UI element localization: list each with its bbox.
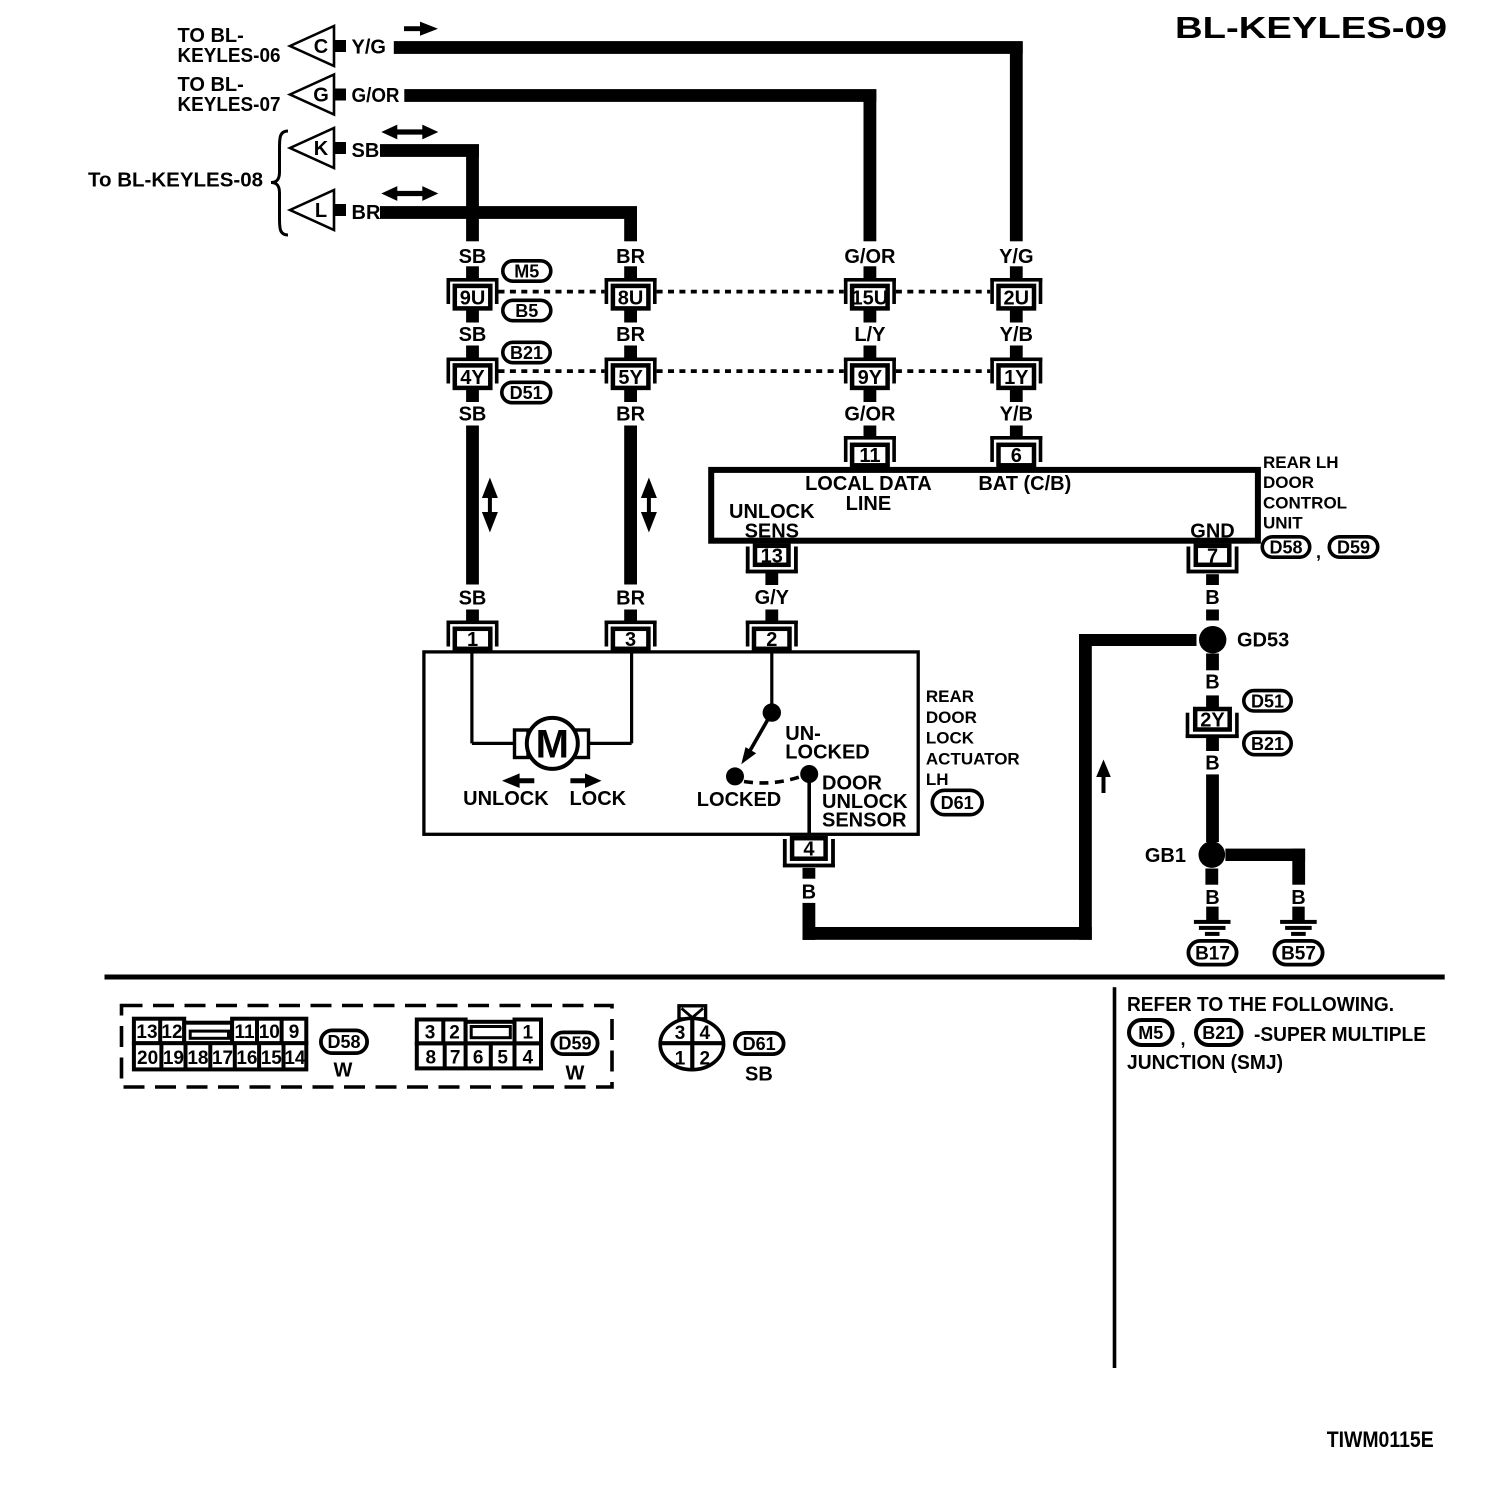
svg-text:6: 6 <box>473 1048 484 1069</box>
svg-text:20: 20 <box>137 1048 158 1069</box>
svg-text:7: 7 <box>1207 546 1218 568</box>
svg-text:12: 12 <box>161 1022 182 1043</box>
svg-text:8U: 8U <box>618 287 644 309</box>
svg-text:5Y: 5Y <box>618 367 643 389</box>
svg-text:TIWM0115E: TIWM0115E <box>1327 1427 1434 1452</box>
svg-text:CONTROL: CONTROL <box>1263 493 1347 512</box>
svg-text:M5: M5 <box>514 262 539 282</box>
svg-text:To BL-KEYLES-08: To BL-KEYLES-08 <box>88 170 263 192</box>
svg-text:D59: D59 <box>1337 538 1370 558</box>
svg-text:3: 3 <box>675 1023 686 1044</box>
svg-text:B: B <box>802 882 816 904</box>
svg-text:LOCAL DATA: LOCAL DATA <box>805 473 932 495</box>
svg-text:G/OR: G/OR <box>844 404 896 426</box>
svg-text:D51: D51 <box>510 383 543 403</box>
svg-text:Y/B: Y/B <box>1000 324 1033 346</box>
svg-text:K: K <box>314 138 329 160</box>
svg-text:D61: D61 <box>743 1034 776 1054</box>
svg-text:18: 18 <box>187 1048 208 1069</box>
svg-text:D51: D51 <box>1251 691 1284 711</box>
svg-text:D58: D58 <box>1269 538 1302 558</box>
svg-text:Y/G: Y/G <box>352 37 386 59</box>
svg-text:G/OR: G/OR <box>844 246 896 268</box>
svg-text:LOCKED: LOCKED <box>785 742 869 764</box>
svg-text:LOCKED: LOCKED <box>697 789 781 811</box>
svg-text:B: B <box>1205 672 1219 694</box>
svg-text:M5: M5 <box>1138 1023 1163 1043</box>
svg-text:D59: D59 <box>558 1034 591 1054</box>
svg-text:1: 1 <box>523 1022 534 1043</box>
svg-text:5: 5 <box>497 1048 508 1069</box>
svg-text:BR: BR <box>616 404 645 426</box>
svg-text:B: B <box>1291 887 1305 909</box>
svg-text:JUNCTION (SMJ): JUNCTION (SMJ) <box>1127 1052 1283 1074</box>
svg-text:BR: BR <box>616 588 645 610</box>
svg-text:11: 11 <box>234 1022 255 1043</box>
svg-text:UNIT: UNIT <box>1263 514 1303 533</box>
svg-text:Y/B: Y/B <box>1000 404 1033 426</box>
svg-text:REAR LH: REAR LH <box>1263 453 1339 472</box>
svg-text:G: G <box>313 85 329 107</box>
svg-text:B17: B17 <box>1195 944 1230 965</box>
svg-text:B21: B21 <box>1251 734 1284 754</box>
svg-text:16: 16 <box>236 1048 257 1069</box>
svg-text:BR: BR <box>616 324 645 346</box>
svg-text:B: B <box>1205 753 1219 775</box>
svg-text:10: 10 <box>259 1022 280 1043</box>
svg-text:SENS: SENS <box>745 521 799 543</box>
svg-text:B: B <box>1205 587 1219 609</box>
svg-text:REAR: REAR <box>926 687 974 706</box>
svg-text:LH: LH <box>926 770 949 789</box>
svg-text:9Y: 9Y <box>858 367 883 389</box>
svg-text:14: 14 <box>284 1048 306 1069</box>
svg-text:KEYLES-07: KEYLES-07 <box>178 94 281 116</box>
svg-text:W: W <box>566 1063 585 1085</box>
svg-text:2U: 2U <box>1004 287 1030 309</box>
svg-text:,: , <box>1181 1029 1186 1049</box>
svg-text:B21: B21 <box>1202 1023 1235 1043</box>
svg-text:B5: B5 <box>515 301 538 321</box>
svg-text:SB: SB <box>745 1064 773 1086</box>
svg-text:19: 19 <box>163 1048 184 1069</box>
svg-text:,: , <box>1316 542 1321 562</box>
svg-text:B57: B57 <box>1281 944 1316 965</box>
svg-text:SB: SB <box>459 404 487 426</box>
svg-text:9: 9 <box>289 1022 300 1043</box>
svg-text:11: 11 <box>859 445 880 467</box>
svg-text:UNLOCK: UNLOCK <box>463 788 549 810</box>
svg-text:GND: GND <box>1190 521 1234 543</box>
svg-text:ACTUATOR: ACTUATOR <box>926 749 1020 768</box>
svg-text:Y/G: Y/G <box>999 246 1033 268</box>
svg-text:BL-KEYLES-09: BL-KEYLES-09 <box>1175 10 1447 45</box>
svg-text:LOCK: LOCK <box>569 788 626 810</box>
svg-text:G/OR: G/OR <box>352 85 401 107</box>
svg-text:-SUPER MULTIPLE: -SUPER MULTIPLE <box>1254 1024 1426 1046</box>
svg-text:SENSOR: SENSOR <box>822 810 907 832</box>
svg-text:L/Y: L/Y <box>854 324 886 346</box>
svg-text:SB: SB <box>459 588 487 610</box>
svg-text:4Y: 4Y <box>460 367 485 389</box>
svg-text:B21: B21 <box>510 343 543 363</box>
svg-text:4: 4 <box>700 1023 711 1044</box>
svg-text:7: 7 <box>450 1048 461 1069</box>
svg-text:TO BL-: TO BL- <box>178 74 244 96</box>
svg-text:KEYLES-06: KEYLES-06 <box>178 45 281 67</box>
svg-text:SB: SB <box>352 140 380 162</box>
svg-text:BR: BR <box>352 202 381 224</box>
svg-text:15: 15 <box>261 1048 283 1069</box>
svg-text:3: 3 <box>625 629 636 651</box>
svg-text:1: 1 <box>675 1048 686 1069</box>
svg-text:15U: 15U <box>852 287 889 309</box>
svg-text:9U: 9U <box>460 287 486 309</box>
svg-text:TO BL-: TO BL- <box>178 25 244 47</box>
svg-text:D61: D61 <box>941 793 974 813</box>
svg-text:D58: D58 <box>327 1032 360 1052</box>
svg-text:4: 4 <box>523 1048 534 1069</box>
svg-text:1Y: 1Y <box>1004 367 1029 389</box>
svg-text:LOCK: LOCK <box>926 729 975 748</box>
svg-text:SB: SB <box>459 246 487 268</box>
svg-text:W: W <box>334 1060 353 1082</box>
svg-text:6: 6 <box>1011 445 1022 467</box>
svg-text:DOOR: DOOR <box>926 708 977 727</box>
svg-text:L: L <box>315 200 327 222</box>
svg-text:2: 2 <box>449 1022 460 1043</box>
svg-text:B: B <box>1205 887 1219 909</box>
svg-text:GD53: GD53 <box>1237 630 1289 652</box>
svg-text:2Y: 2Y <box>1200 709 1225 731</box>
svg-text:BR: BR <box>616 246 645 268</box>
svg-text:1: 1 <box>467 629 478 651</box>
svg-text:2: 2 <box>766 629 777 651</box>
svg-text:C: C <box>314 36 328 58</box>
svg-text:17: 17 <box>212 1048 233 1069</box>
svg-text:GB1: GB1 <box>1145 845 1186 867</box>
svg-text:M: M <box>536 723 569 767</box>
svg-text:REFER TO THE FOLLOWING.: REFER TO THE FOLLOWING. <box>1127 994 1394 1016</box>
svg-text:BAT (C/B): BAT (C/B) <box>978 473 1071 495</box>
svg-text:LINE: LINE <box>846 493 892 515</box>
svg-text:2: 2 <box>700 1048 711 1069</box>
svg-text:SB: SB <box>459 324 487 346</box>
svg-text:4: 4 <box>803 839 815 861</box>
svg-text:DOOR: DOOR <box>1263 473 1314 492</box>
svg-text:8: 8 <box>426 1048 437 1069</box>
svg-text:G/Y: G/Y <box>755 587 790 609</box>
svg-text:13: 13 <box>761 546 783 568</box>
svg-text:13: 13 <box>136 1022 157 1043</box>
svg-text:3: 3 <box>425 1022 436 1043</box>
